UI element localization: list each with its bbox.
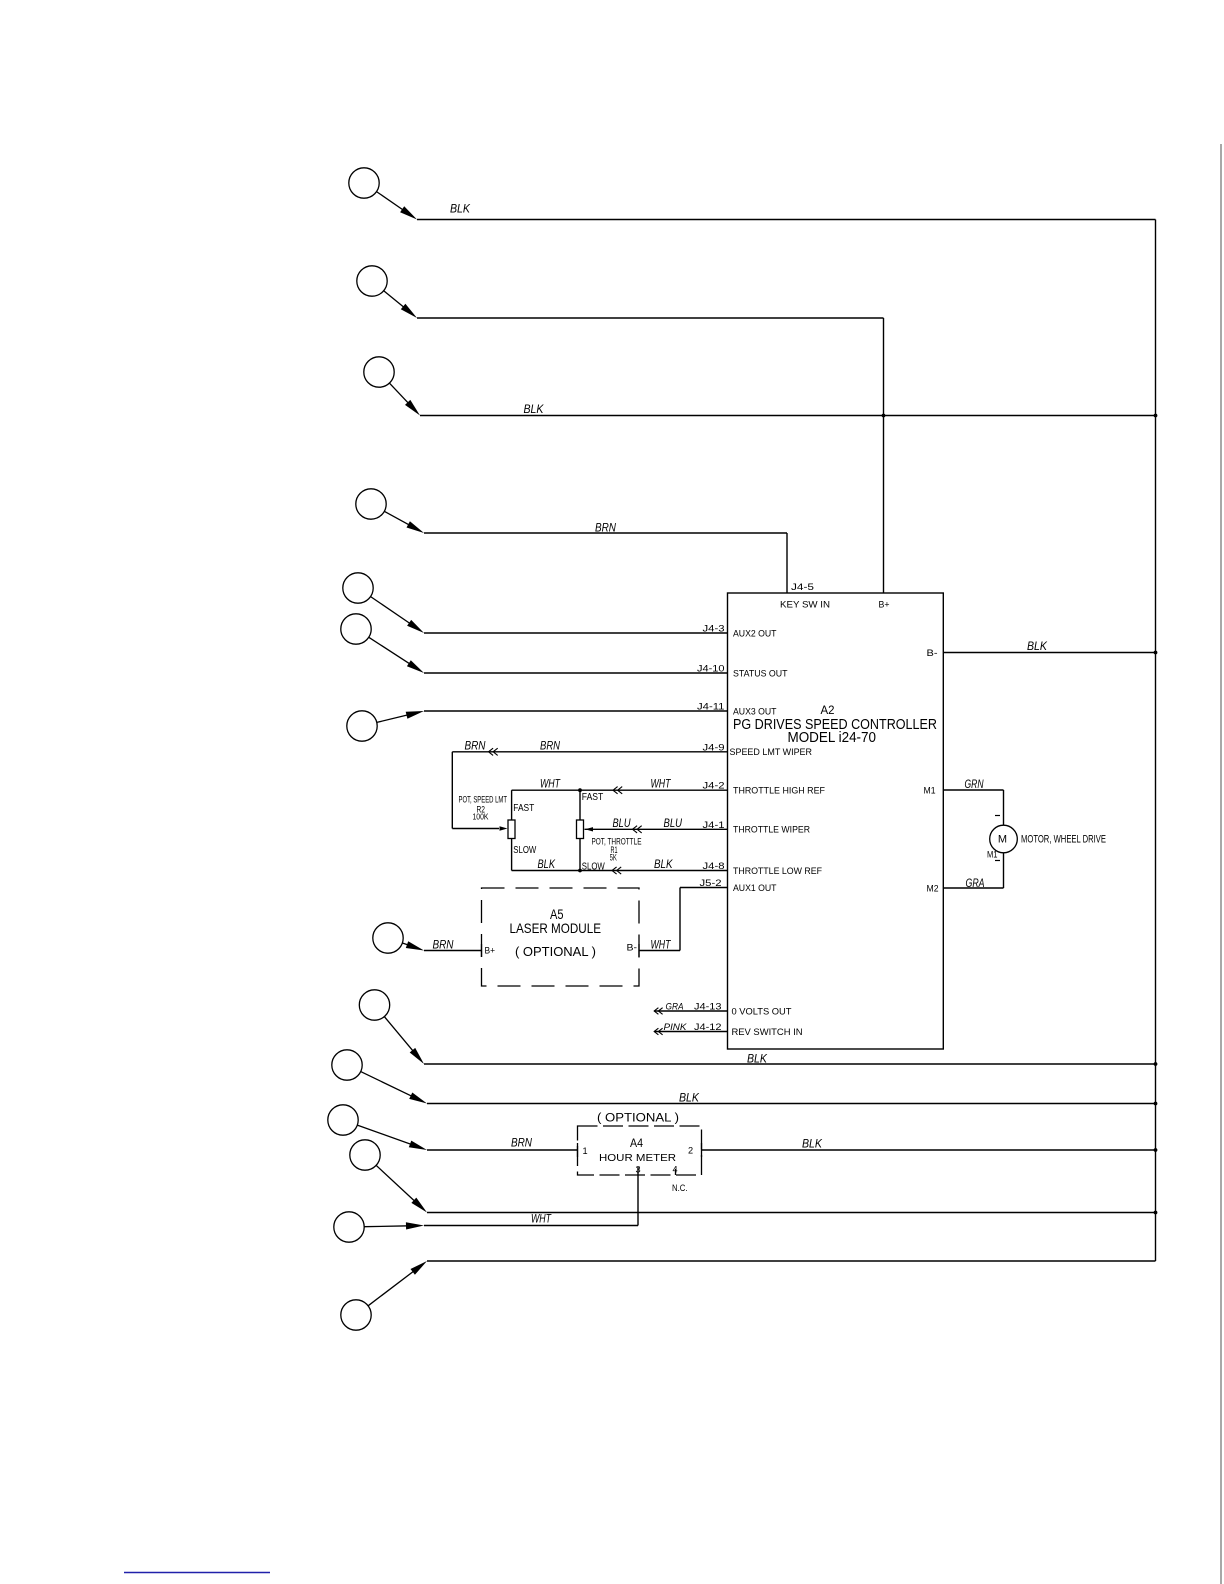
svg-text:A4: A4: [630, 1138, 644, 1150]
svg-text:B-: B-: [927, 648, 938, 658]
svg-text:100K: 100K: [473, 812, 490, 821]
svg-text:SPEED LMT WIPER: SPEED LMT WIPER: [730, 747, 813, 757]
svg-text:1: 1: [583, 1146, 588, 1156]
svg-text:BLK: BLK: [679, 1091, 700, 1105]
svg-text:M1: M1: [987, 850, 998, 860]
svg-text:BLK: BLK: [802, 1137, 823, 1151]
svg-text:BLU: BLU: [664, 816, 683, 830]
svg-text:WHT: WHT: [651, 938, 672, 952]
svg-text:GRA: GRA: [666, 1002, 684, 1013]
svg-text:B-: B-: [627, 943, 638, 953]
svg-text:B+: B+: [879, 600, 890, 610]
svg-text:M1: M1: [924, 785, 936, 795]
svg-text:N.C.: N.C.: [672, 1183, 688, 1193]
svg-text:B+: B+: [485, 946, 496, 956]
svg-text:J5-2: J5-2: [700, 878, 722, 888]
svg-text:BLK: BLK: [538, 857, 556, 871]
svg-text:BLK: BLK: [1027, 639, 1048, 653]
svg-text:AUX2 OUT: AUX2 OUT: [733, 628, 777, 638]
svg-text:GRN: GRN: [965, 777, 984, 791]
svg-text:HOUR METER: HOUR METER: [599, 1153, 676, 1164]
svg-text:BLU: BLU: [613, 816, 631, 830]
svg-text:J4-13: J4-13: [694, 1002, 722, 1012]
svg-text:J4-10: J4-10: [697, 664, 725, 674]
svg-text:SLOW: SLOW: [582, 861, 605, 872]
svg-text:THROTTLE WIPER: THROTTLE WIPER: [733, 825, 810, 835]
svg-text:J4-11: J4-11: [697, 702, 725, 712]
svg-text:FAST: FAST: [582, 792, 604, 803]
svg-text:MOTOR, WHEEL DRIVE: MOTOR, WHEEL DRIVE: [1021, 834, 1106, 846]
svg-text:REV SWITCH IN: REV SWITCH IN: [732, 1027, 803, 1037]
svg-text:BRN: BRN: [511, 1136, 532, 1150]
svg-text:BLK: BLK: [524, 402, 545, 416]
svg-text:2: 2: [688, 1146, 693, 1156]
svg-text:3: 3: [636, 1164, 641, 1174]
svg-text:5K: 5K: [610, 853, 617, 863]
svg-text:POT, SPEED LMT: POT, SPEED LMT: [459, 794, 508, 804]
svg-text:J4-9: J4-9: [703, 742, 725, 752]
svg-text:A2: A2: [821, 703, 835, 717]
svg-text:J4-1: J4-1: [703, 820, 725, 830]
svg-text:( OPTIONAL ): ( OPTIONAL ): [597, 1113, 679, 1125]
svg-text:J4-8: J4-8: [703, 861, 725, 871]
svg-text:J4-2: J4-2: [703, 781, 725, 791]
svg-text:BLK: BLK: [654, 857, 673, 871]
svg-text:BLK: BLK: [450, 202, 471, 216]
svg-text:THROTTLE LOW REF: THROTTLE LOW REF: [733, 866, 822, 876]
svg-text:FAST: FAST: [513, 803, 534, 814]
svg-text:( OPTIONAL ): ( OPTIONAL ): [515, 944, 596, 959]
svg-text:BRN: BRN: [433, 938, 454, 952]
svg-text:J4-12: J4-12: [694, 1022, 722, 1032]
svg-text:BRN: BRN: [540, 739, 560, 753]
svg-text:AUX3 OUT: AUX3 OUT: [733, 706, 777, 716]
svg-text:STATUS OUT: STATUS OUT: [733, 668, 788, 678]
svg-text:4: 4: [673, 1164, 678, 1174]
svg-text:WHT: WHT: [531, 1212, 552, 1226]
svg-text:KEY SW IN: KEY SW IN: [780, 600, 830, 610]
svg-text:M2: M2: [927, 883, 939, 893]
svg-text:GRA: GRA: [966, 876, 985, 890]
svg-text:PINK: PINK: [664, 1022, 688, 1033]
svg-text:BRN: BRN: [465, 739, 486, 753]
svg-text:LASER MODULE: LASER MODULE: [510, 920, 602, 936]
svg-text:SLOW: SLOW: [513, 845, 536, 856]
svg-text:AUX1 OUT: AUX1 OUT: [733, 883, 777, 893]
svg-text:WHT: WHT: [651, 777, 672, 791]
svg-text:BLK: BLK: [747, 1052, 768, 1066]
svg-text:0 VOLTS OUT: 0 VOLTS OUT: [732, 1006, 792, 1016]
svg-text:WHT: WHT: [540, 777, 561, 791]
svg-text:MODEL i24-70: MODEL i24-70: [788, 730, 877, 746]
svg-text:THROTTLE HIGH REF: THROTTLE HIGH REF: [733, 786, 825, 796]
svg-text:J4-5: J4-5: [791, 582, 814, 592]
svg-text:J4-3: J4-3: [703, 624, 725, 634]
svg-text:BRN: BRN: [595, 521, 616, 535]
svg-text:M: M: [998, 834, 1007, 846]
